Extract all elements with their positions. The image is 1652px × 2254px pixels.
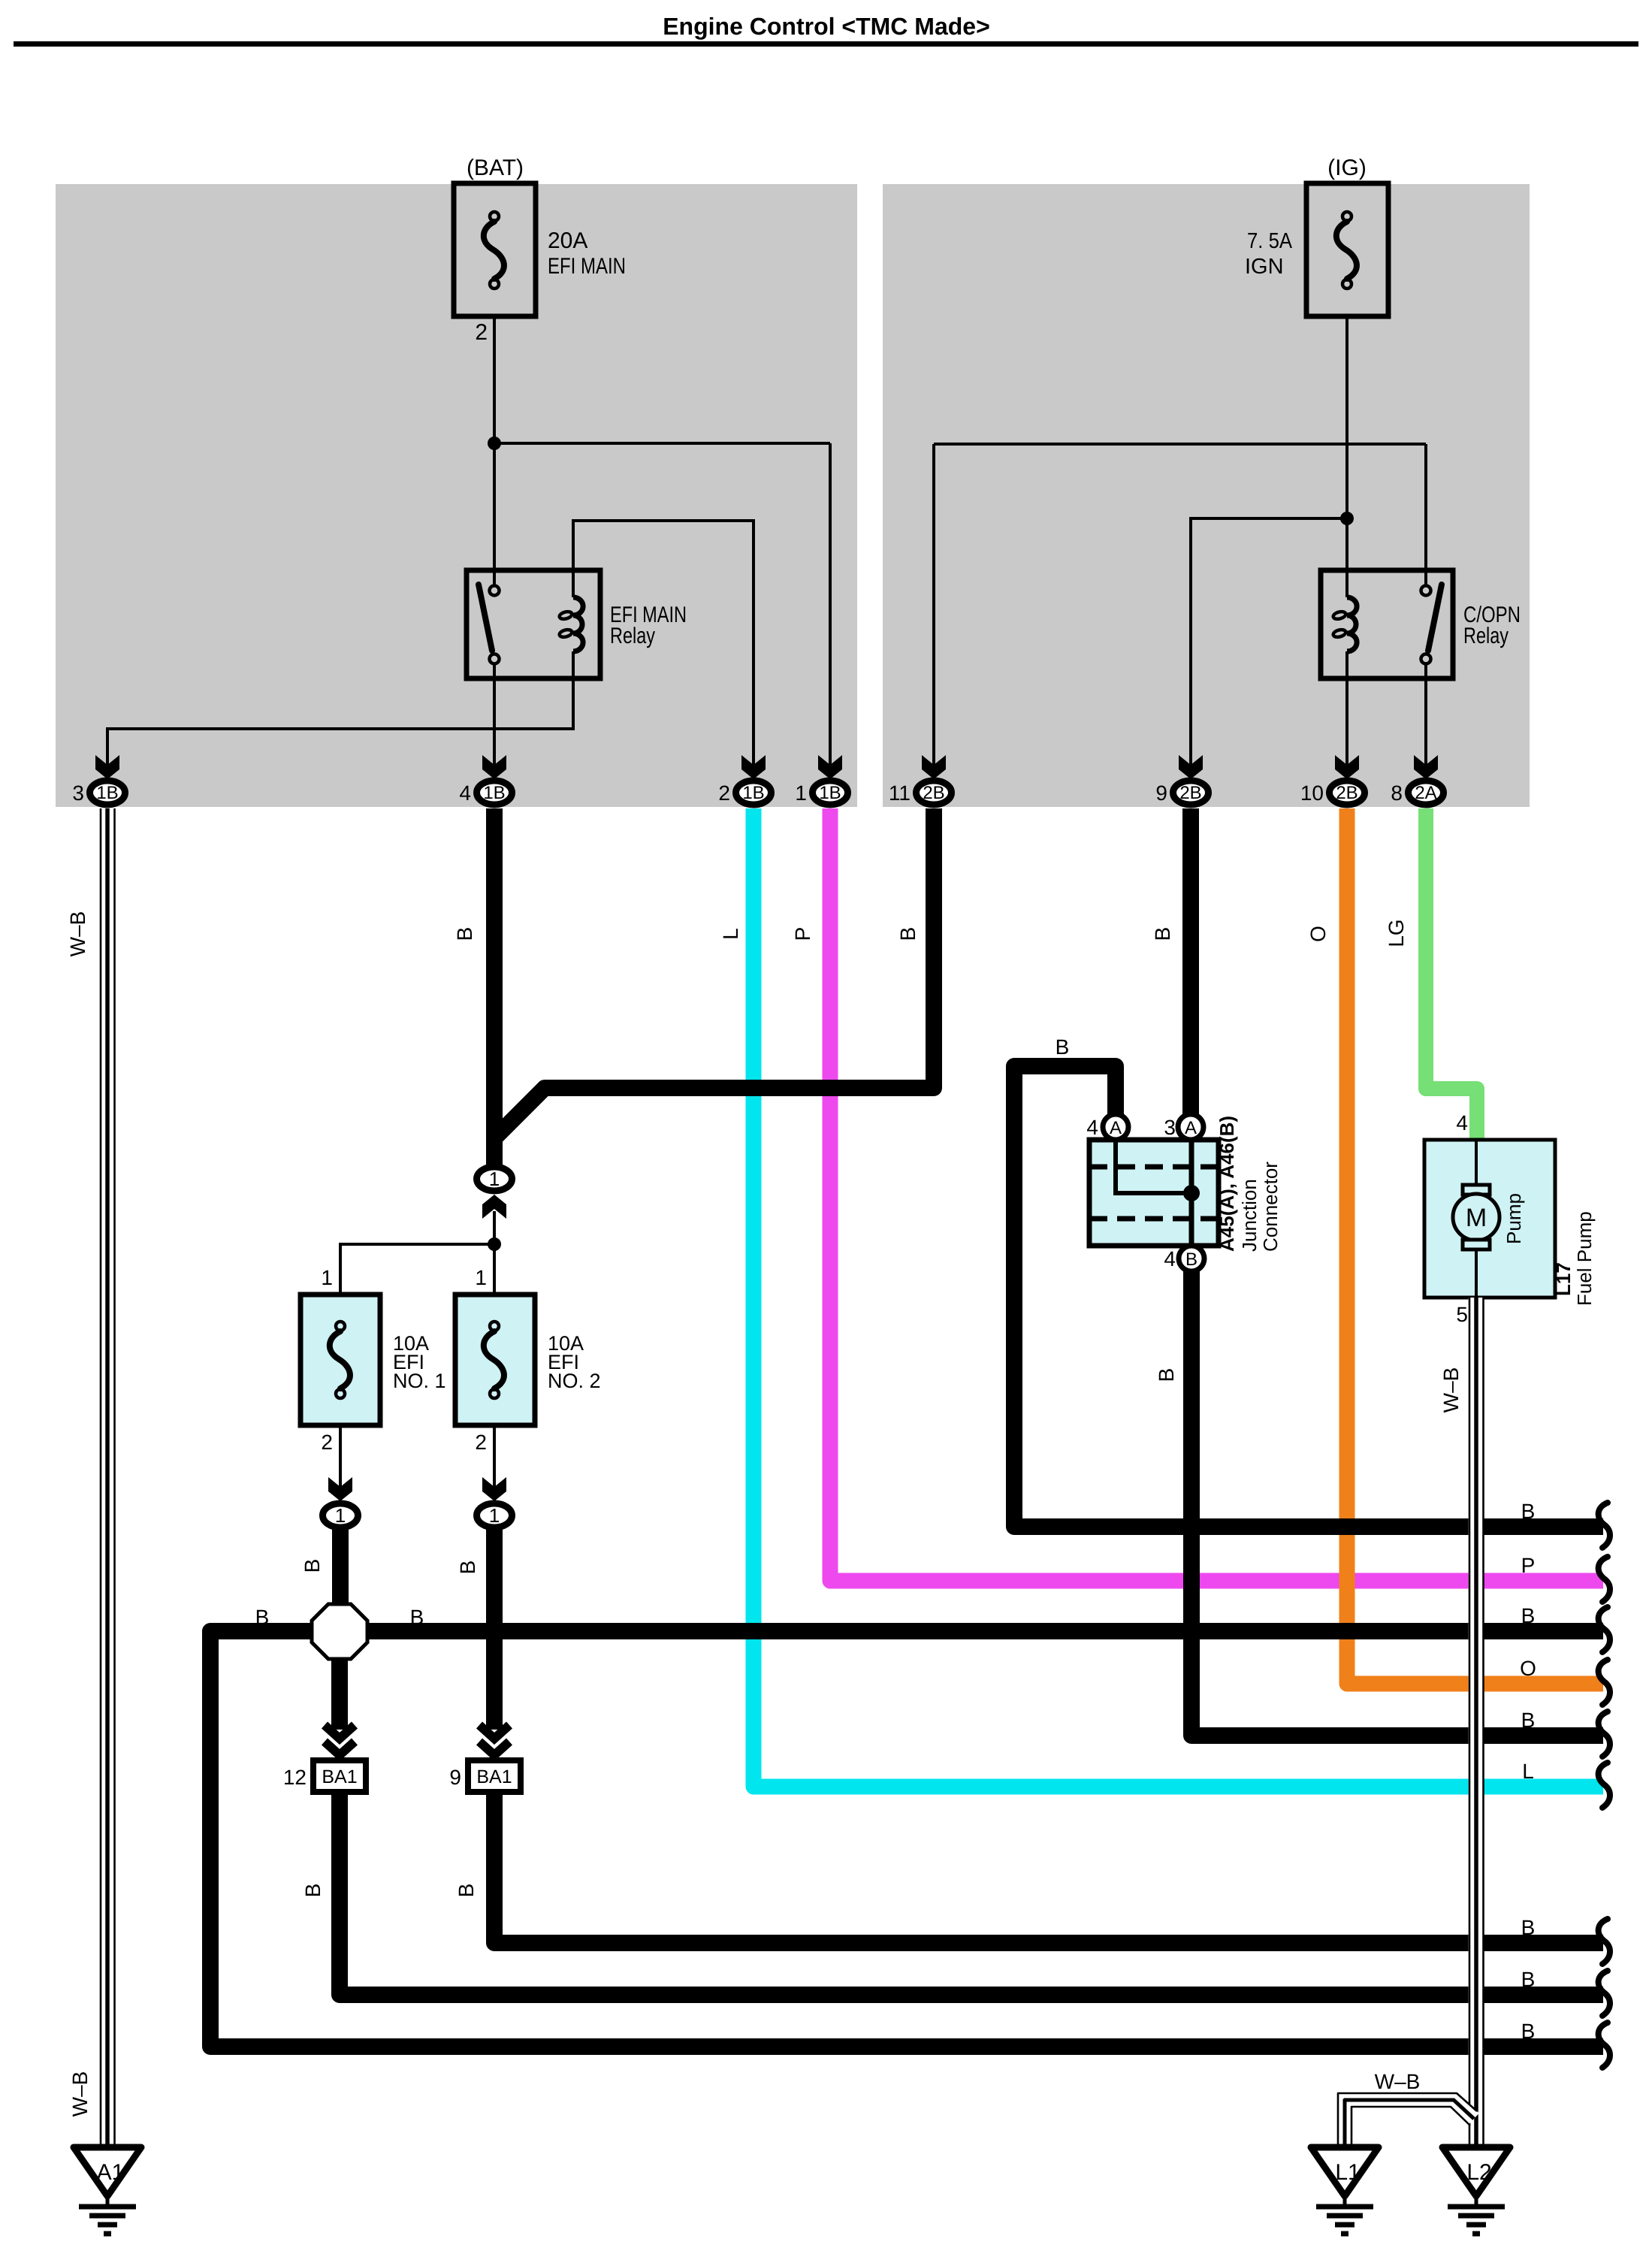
svg-text:O: O: [1306, 926, 1330, 942]
svg-text:B: B: [255, 1606, 270, 1629]
svg-text:B: B: [1185, 1249, 1197, 1270]
svg-text:B: B: [1521, 1500, 1536, 1523]
svg-text:A1: A1: [97, 2160, 125, 2185]
svg-text:NO. 2: NO. 2: [548, 1370, 601, 1392]
svg-text:M: M: [1466, 1204, 1487, 1232]
svg-text:B: B: [1521, 2020, 1536, 2043]
svg-text:2B: 2B: [1336, 783, 1358, 803]
svg-text:P: P: [791, 927, 814, 941]
svg-text:A: A: [1110, 1118, 1122, 1138]
svg-text:2B: 2B: [923, 783, 944, 803]
svg-text:4: 4: [1456, 1111, 1468, 1135]
svg-text:L1: L1: [1335, 2160, 1360, 2185]
svg-text:1: 1: [795, 781, 807, 805]
svg-text:L2: L2: [1466, 2160, 1491, 2185]
svg-text:Connector: Connector: [1259, 1162, 1282, 1252]
svg-text:Junction: Junction: [1238, 1179, 1261, 1252]
svg-text:Relay: Relay: [1463, 624, 1509, 648]
svg-text:B: B: [1521, 1968, 1536, 1991]
svg-text:3: 3: [1164, 1116, 1176, 1139]
svg-text:BA1: BA1: [476, 1766, 512, 1787]
svg-text:8: 8: [1391, 781, 1403, 805]
svg-text:P: P: [1521, 1554, 1536, 1577]
svg-text:Relay: Relay: [610, 624, 655, 648]
svg-text:1: 1: [475, 1266, 487, 1289]
svg-text:O: O: [1520, 1657, 1536, 1680]
svg-text:W–B: W–B: [66, 911, 89, 957]
svg-text:12: 12: [283, 1766, 307, 1789]
svg-text:1B: 1B: [96, 783, 118, 803]
svg-text:L: L: [1522, 1760, 1534, 1783]
svg-text:B: B: [896, 927, 920, 941]
svg-text:Pump: Pump: [1503, 1193, 1525, 1244]
svg-text:20A: 20A: [548, 228, 587, 253]
svg-text:B: B: [1056, 1035, 1070, 1059]
svg-text:B: B: [301, 1559, 324, 1573]
svg-text:9: 9: [449, 1766, 461, 1789]
svg-text:W–B: W–B: [68, 2071, 92, 2117]
svg-text:9: 9: [1155, 781, 1167, 805]
svg-text:B: B: [1151, 927, 1174, 941]
svg-text:IGN: IGN: [1245, 255, 1284, 279]
svg-text:(IG): (IG): [1327, 156, 1367, 180]
svg-text:3: 3: [72, 781, 84, 805]
svg-text:EFI MAIN: EFI MAIN: [548, 254, 626, 279]
svg-text:5: 5: [1456, 1303, 1468, 1326]
svg-text:2A: 2A: [1415, 783, 1436, 803]
svg-text:Fuel Pump: Fuel Pump: [1573, 1211, 1596, 1306]
svg-text:1: 1: [321, 1266, 333, 1289]
svg-text:(BAT): (BAT): [467, 156, 524, 180]
svg-text:2: 2: [321, 1431, 333, 1454]
svg-text:4: 4: [1164, 1247, 1176, 1271]
svg-text:B: B: [453, 927, 476, 941]
svg-text:BA1: BA1: [322, 1766, 357, 1787]
svg-text:1: 1: [489, 1504, 500, 1527]
svg-text:B: B: [1521, 1916, 1536, 1939]
svg-text:7. 5A: 7. 5A: [1247, 229, 1293, 253]
svg-text:2B: 2B: [1179, 783, 1201, 803]
svg-text:W–B: W–B: [1439, 1367, 1463, 1413]
svg-text:1B: 1B: [483, 783, 505, 803]
svg-text:B: B: [1155, 1368, 1178, 1382]
svg-text:A45(A), A46(B): A45(A), A46(B): [1216, 1116, 1238, 1252]
svg-text:W–B: W–B: [1375, 2070, 1421, 2093]
svg-text:1: 1: [335, 1504, 346, 1527]
svg-text:B: B: [455, 1884, 478, 1898]
svg-text:2: 2: [475, 1431, 487, 1454]
svg-text:Engine Control <TMC Made>: Engine Control <TMC Made>: [663, 13, 990, 40]
svg-text:B: B: [1521, 1709, 1536, 1732]
svg-text:4: 4: [1086, 1116, 1098, 1139]
svg-text:L: L: [719, 928, 742, 940]
svg-text:A: A: [1185, 1118, 1197, 1138]
svg-text:1B: 1B: [742, 783, 764, 803]
svg-text:10: 10: [1300, 781, 1324, 805]
svg-text:LG: LG: [1385, 919, 1408, 947]
svg-text:B: B: [301, 1884, 325, 1898]
svg-text:4: 4: [459, 781, 471, 805]
svg-text:11: 11: [889, 781, 911, 805]
svg-text:1: 1: [489, 1168, 500, 1190]
svg-text:B: B: [1521, 1604, 1536, 1627]
svg-text:B: B: [456, 1561, 479, 1575]
svg-text:2: 2: [718, 781, 730, 805]
svg-text:L17: L17: [1552, 1262, 1575, 1296]
svg-text:1B: 1B: [819, 783, 841, 803]
svg-text:2: 2: [475, 320, 488, 345]
svg-text:B: B: [410, 1606, 424, 1629]
svg-text:NO. 1: NO. 1: [393, 1370, 446, 1392]
